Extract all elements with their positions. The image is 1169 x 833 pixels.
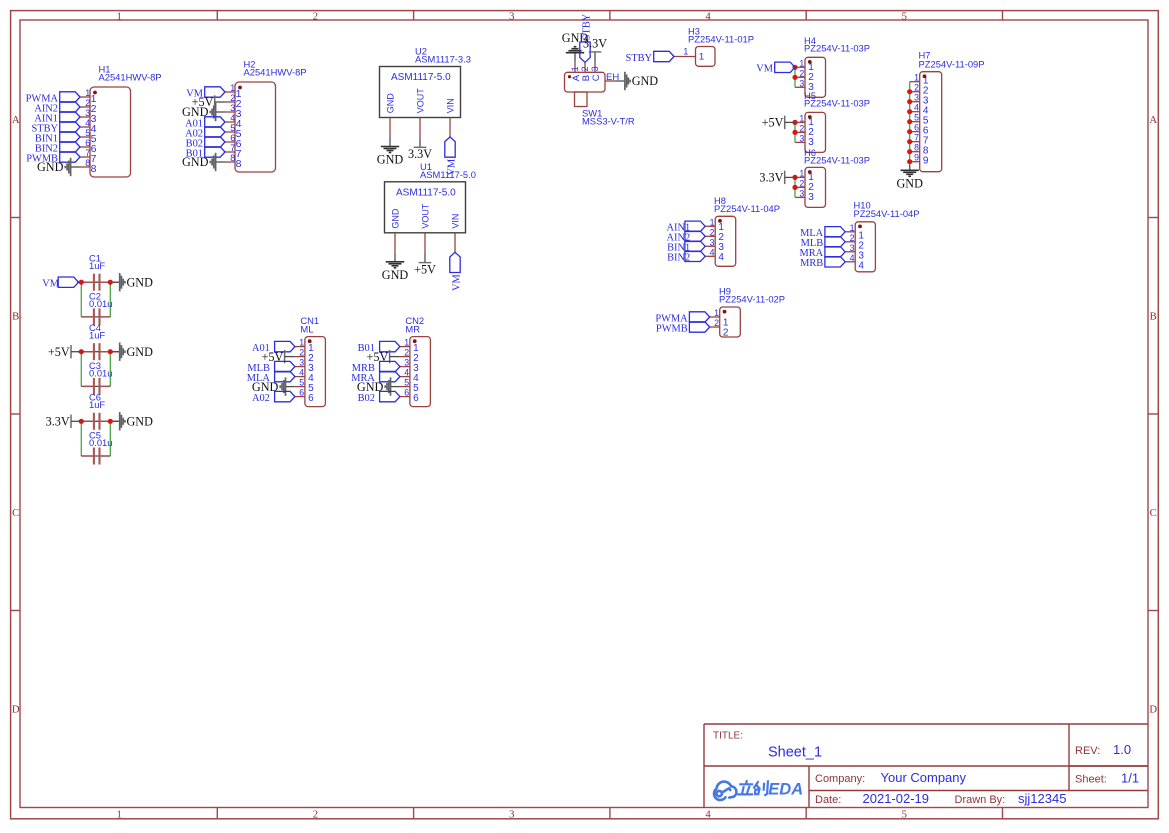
svg-text:0.01u: 0.01u (89, 298, 112, 309)
svg-text:PZ254V-11-04P: PZ254V-11-04P (714, 203, 780, 214)
svg-text:8: 8 (914, 143, 919, 153)
svg-text:MRB: MRB (800, 258, 823, 269)
svg-text:1.0: 1.0 (1113, 742, 1131, 757)
svg-text:Sheet:: Sheet: (1075, 774, 1107, 786)
svg-text:8: 8 (236, 158, 242, 170)
svg-text:2: 2 (710, 227, 715, 237)
svg-text:1: 1 (799, 58, 804, 68)
svg-text:A2541HWV-8P: A2541HWV-8P (99, 72, 162, 83)
svg-text:2: 2 (404, 348, 409, 358)
svg-text:8: 8 (230, 153, 235, 163)
svg-text:VM: VM (756, 64, 773, 75)
svg-text:0.01u: 0.01u (89, 368, 112, 379)
svg-text:1: 1 (570, 66, 580, 71)
svg-text:6: 6 (404, 388, 409, 398)
svg-text:BIN2: BIN2 (667, 253, 690, 264)
svg-text:1: 1 (85, 88, 90, 98)
svg-text:4: 4 (858, 260, 864, 271)
svg-text:PZ254V-11-02P: PZ254V-11-02P (719, 294, 785, 305)
svg-text:7: 7 (230, 143, 235, 153)
svg-text:3: 3 (85, 108, 90, 118)
svg-text:6: 6 (413, 393, 419, 404)
svg-text:2: 2 (799, 123, 804, 133)
svg-text:PZ254V-11-03P: PZ254V-11-03P (804, 155, 870, 166)
svg-text:1uF: 1uF (89, 260, 105, 271)
svg-text:2: 2 (714, 318, 719, 328)
svg-text:B: B (12, 310, 19, 322)
svg-text:1: 1 (714, 308, 719, 318)
svg-text:GND: GND (896, 177, 923, 191)
svg-text:STBY: STBY (625, 53, 652, 64)
svg-text:C: C (591, 74, 602, 81)
svg-text:GND: GND (385, 93, 395, 114)
svg-text:4: 4 (85, 118, 90, 128)
svg-text:3.3V: 3.3V (408, 147, 432, 161)
svg-text:PZ254V-11-03P: PZ254V-11-03P (804, 98, 870, 109)
svg-text:5: 5 (299, 378, 304, 388)
svg-text:2: 2 (799, 178, 804, 188)
svg-text:B: B (1150, 310, 1157, 322)
svg-text:4: 4 (850, 253, 855, 263)
svg-text:VM: VM (451, 274, 462, 291)
svg-text:A2541HWV-8P: A2541HWV-8P (244, 67, 307, 78)
svg-text:Sheet_1: Sheet_1 (768, 745, 822, 761)
svg-text:PZ254V-11-09P: PZ254V-11-09P (919, 59, 985, 70)
svg-text:B02: B02 (358, 393, 375, 404)
svg-text:ASM1117-5.0: ASM1117-5.0 (420, 169, 476, 180)
svg-text:GND: GND (182, 155, 209, 169)
svg-text:ASM1117-5.0: ASM1117-5.0 (396, 187, 456, 198)
svg-text:2: 2 (313, 11, 318, 23)
svg-text:3: 3 (509, 809, 514, 821)
svg-text:ASM1117-3.3: ASM1117-3.3 (415, 54, 471, 65)
svg-text:6: 6 (230, 133, 235, 143)
svg-text:5: 5 (914, 113, 919, 123)
svg-text:Date:: Date: (815, 794, 841, 806)
svg-text:9: 9 (914, 153, 919, 163)
svg-text:REV:: REV: (1075, 745, 1100, 757)
svg-text:1: 1 (710, 217, 715, 227)
svg-text:+5V: +5V (414, 262, 436, 276)
svg-text:2: 2 (799, 68, 804, 78)
svg-text:3: 3 (850, 243, 855, 253)
svg-text:GND: GND (127, 415, 154, 429)
svg-text:3: 3 (299, 358, 304, 368)
svg-text:3: 3 (590, 66, 600, 71)
svg-text:3: 3 (799, 133, 804, 143)
svg-text:6: 6 (308, 393, 314, 404)
svg-text:GND: GND (632, 74, 659, 88)
svg-text:5: 5 (404, 378, 409, 388)
svg-text:1: 1 (799, 168, 804, 178)
svg-text:3.3V: 3.3V (583, 37, 607, 51)
svg-text:4: 4 (404, 368, 409, 378)
svg-text:VM: VM (42, 279, 59, 290)
svg-text:5: 5 (85, 128, 90, 138)
svg-text:3.3V: 3.3V (46, 415, 70, 429)
svg-text:4: 4 (299, 368, 304, 378)
svg-text:+5V: +5V (48, 345, 70, 359)
svg-text:5: 5 (902, 809, 907, 821)
svg-text:6: 6 (914, 123, 919, 133)
svg-text:C: C (12, 507, 19, 519)
svg-text:6: 6 (85, 138, 90, 148)
svg-text:sjj12345: sjj12345 (1018, 791, 1066, 806)
svg-text:2: 2 (850, 233, 855, 243)
svg-text:2: 2 (230, 93, 235, 103)
svg-text:3: 3 (799, 78, 804, 88)
svg-text:TITLE:: TITLE: (713, 731, 743, 742)
svg-text:GND: GND (382, 268, 409, 282)
svg-text:3: 3 (799, 188, 804, 198)
svg-text:PZ254V-11-03P: PZ254V-11-03P (804, 43, 870, 54)
svg-text:Company:: Company: (815, 773, 865, 785)
svg-text:1/1: 1/1 (1121, 771, 1139, 786)
svg-text:2: 2 (85, 98, 90, 108)
svg-text:PZ254V-11-01P: PZ254V-11-01P (688, 34, 754, 45)
svg-text:ML: ML (300, 323, 313, 334)
svg-text:VOUT: VOUT (415, 88, 425, 114)
svg-text:MR: MR (405, 323, 420, 334)
svg-text:3: 3 (404, 358, 409, 368)
svg-text:D: D (1149, 704, 1157, 716)
svg-text:4: 4 (710, 247, 715, 257)
svg-text:8: 8 (91, 163, 97, 175)
svg-text:1uF: 1uF (89, 399, 105, 410)
svg-text:4: 4 (718, 252, 724, 263)
svg-text:3: 3 (230, 103, 235, 113)
svg-text:A: A (12, 114, 20, 126)
svg-text:GND: GND (127, 275, 154, 289)
svg-text:2: 2 (313, 809, 318, 821)
svg-text:PWMB: PWMB (656, 323, 688, 334)
svg-text:2: 2 (914, 83, 919, 93)
svg-text:1: 1 (914, 73, 919, 83)
svg-text:3.3V: 3.3V (759, 171, 783, 185)
svg-text:1: 1 (116, 11, 121, 23)
svg-text:1: 1 (699, 52, 704, 63)
svg-text:2: 2 (723, 327, 729, 338)
svg-text:9: 9 (923, 156, 929, 167)
svg-text:GND: GND (377, 153, 404, 167)
svg-text:ASM1117-5.0: ASM1117-5.0 (391, 72, 451, 83)
svg-text:D: D (12, 704, 20, 716)
svg-text:VOUT: VOUT (420, 203, 430, 229)
svg-text:A02: A02 (252, 393, 270, 404)
svg-text:4: 4 (914, 103, 919, 113)
svg-text:GND: GND (390, 208, 400, 229)
svg-text:MSS3-V-T/R: MSS3-V-T/R (582, 116, 635, 127)
svg-text:1: 1 (850, 223, 855, 233)
svg-text:C: C (1150, 507, 1157, 519)
svg-text:1: 1 (404, 338, 409, 348)
svg-text:0.01u: 0.01u (89, 437, 112, 448)
svg-text:3: 3 (509, 11, 514, 23)
svg-text:PZ254V-11-04P: PZ254V-11-04P (854, 208, 920, 219)
svg-text:VIN: VIN (450, 214, 460, 229)
svg-text:VIN: VIN (445, 98, 455, 113)
svg-text:Your Company: Your Company (881, 770, 967, 785)
svg-text:+5V: +5V (762, 116, 784, 130)
svg-text:6: 6 (299, 388, 304, 398)
svg-text:8: 8 (85, 158, 90, 168)
svg-text:Drawn By:: Drawn By: (955, 794, 1006, 806)
svg-text:1: 1 (230, 83, 235, 93)
svg-text:2: 2 (580, 66, 590, 71)
svg-text:2: 2 (299, 348, 304, 358)
svg-text:7: 7 (914, 133, 919, 143)
svg-text:2021-02-19: 2021-02-19 (863, 791, 930, 806)
svg-text:1: 1 (683, 47, 688, 57)
svg-text:A: A (1149, 114, 1157, 126)
svg-text:4: 4 (705, 809, 711, 821)
svg-text:3: 3 (914, 93, 919, 103)
svg-text:7: 7 (85, 148, 90, 158)
svg-text:1: 1 (299, 338, 304, 348)
svg-text:1: 1 (116, 809, 121, 821)
svg-text:GND: GND (127, 345, 154, 359)
svg-text:3: 3 (808, 192, 814, 203)
svg-text:4: 4 (230, 113, 235, 123)
svg-text:5: 5 (902, 11, 907, 23)
svg-text:EDA: EDA (768, 781, 803, 799)
svg-text:4: 4 (705, 11, 711, 23)
svg-text:GND: GND (37, 160, 64, 174)
svg-text:5: 5 (230, 123, 235, 133)
svg-text:1: 1 (799, 113, 804, 123)
svg-text:1uF: 1uF (89, 330, 105, 341)
svg-text:3: 3 (710, 237, 715, 247)
